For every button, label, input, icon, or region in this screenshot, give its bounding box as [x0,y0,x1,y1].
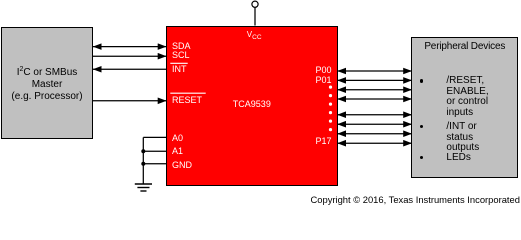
list line: /RESET, [446,76,484,86]
label: I2C or SMBus [1,65,93,78]
wire: ground bus vertical [142,137,144,183]
pin label P00 [315,66,331,75]
ground symbol [135,184,152,191]
wire port P00 [337,70,411,72]
pin label P17 [315,137,331,146]
pin label SDA [172,42,191,51]
pin label SCL [172,51,190,60]
pin label P01 [315,76,331,85]
list line: /INT or [446,122,476,132]
wire port P17 [337,142,411,144]
overbar of RESET [170,92,205,94]
wire port P03 [337,98,411,100]
label: Peripheral Devices [412,42,519,52]
pin label INT (active low, overbar) [172,65,187,74]
pin label VCC [247,31,262,42]
wire GND [143,163,166,165]
junction: GND to bus [141,162,145,166]
wire SDA (bidirectional) [93,46,166,48]
wire SCL (to TCA9539) [93,55,166,57]
wire port P02 [337,89,411,91]
pin label RESET (active low, overbar) [172,96,202,105]
bullet 3 [420,156,423,159]
wire port P01 [337,79,411,81]
block: I2C or SMBus Master (e.g. Processor) [1,27,93,140]
list line: or control [446,97,488,107]
wire RESET (to TCA9539) [93,100,166,102]
junction: A1 to bus [141,149,145,153]
wire A1 [143,150,166,152]
list line: LEDs [446,153,470,163]
list line: inputs [446,108,473,118]
VCC stem wire [254,7,256,26]
overbar of INT [170,62,187,64]
list line: outputs [446,143,479,153]
bullet 1 [420,79,423,82]
label: Master [1,80,93,90]
list line: status [446,133,473,143]
list line: ENABLE, [446,87,488,97]
VCC terminal circle [252,1,258,7]
pin label GND [172,161,192,170]
part name: TCA9539 [233,100,271,109]
label: (e.g. Processor) [1,92,93,102]
wire port P15 [337,123,411,125]
wire port P14 [337,114,411,116]
copyright note [311,195,520,204]
bullet 2 [420,125,423,128]
block: Peripheral Devices [411,37,518,178]
wire INT (to master) [93,68,166,70]
wire A0 [143,136,166,138]
IC U1: TCA9539 body [166,26,338,186]
pin label A1 [172,147,183,156]
port ellipsis dots [329,86,332,132]
pin label A0 [172,134,183,143]
wire port P16 [337,133,411,135]
